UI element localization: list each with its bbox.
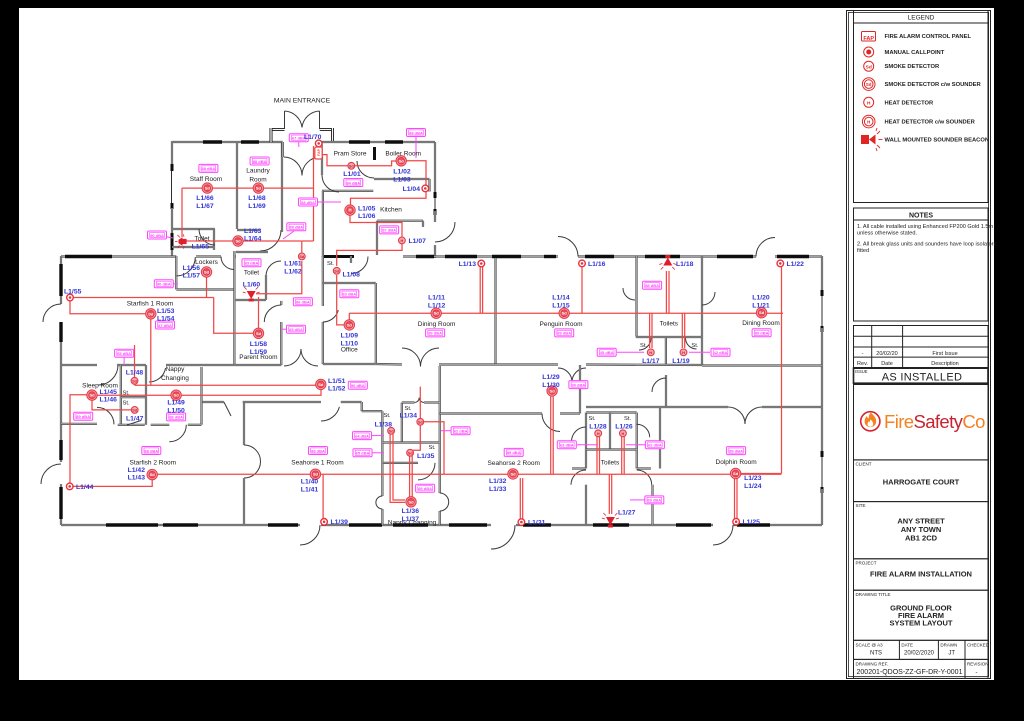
wall office west 2 (322, 322, 324, 364)
wall main west 2 (60, 322, 62, 462)
svg-text:MANUAL CALLPOINT: MANUAL CALLPOINT (885, 50, 945, 56)
wire L1/31 drop b (522, 478, 524, 519)
beacon L1/18 (659, 255, 676, 270)
dBA entrance (289, 134, 308, 142)
svg-text:65 dBA: 65 dBA (356, 451, 370, 456)
dBA toilets mid (643, 281, 662, 289)
wall st block divider v (401, 403, 403, 442)
svg-text:Sd: Sd (510, 471, 516, 476)
wall st block low h (382, 462, 418, 464)
svg-text:L1/15: L1/15 (552, 303, 570, 310)
wall seahorse2 top a (440, 412, 542, 414)
wall starfish2 divider top (243, 402, 245, 445)
svg-text:20/02/20: 20/02/20 (876, 351, 897, 357)
wall nappy2 west b (381, 509, 383, 525)
door parent (264, 305, 281, 322)
svg-text:Sd: Sd (150, 472, 156, 477)
svg-text:NOTES: NOTES (909, 213, 933, 220)
svg-text:42 dBA: 42 dBA (714, 350, 728, 355)
svg-text:L1/49: L1/49 (167, 400, 185, 407)
double doors penguin s (558, 368, 572, 382)
wall kitchen store west (376, 221, 378, 255)
detector L1/07 (399, 237, 406, 244)
svg-text:St.: St. (327, 261, 334, 267)
svg-text:L1/65: L1/65 (192, 244, 210, 251)
svg-text:L1/52: L1/52 (328, 386, 346, 393)
svg-text:Staff Room: Staff Room (190, 176, 222, 183)
wall corridor sw 1 (202, 401, 224, 403)
wire L1/26 drop a (621, 437, 623, 475)
svg-text:63 dBA: 63 dBA (560, 443, 574, 448)
wall top-left wing west 3 (171, 250, 173, 258)
wall dolphin top a (660, 406, 728, 408)
svg-text:H: H (682, 351, 685, 355)
dBA nappy1 (167, 413, 186, 421)
svg-text:Penguin Room: Penguin Room (540, 321, 583, 328)
svg-text:H: H (401, 239, 404, 243)
wall parent east 1 (280, 301, 282, 305)
door corridor mid (321, 407, 339, 421)
svg-text:Date: Date (881, 361, 893, 367)
dBA nappy2 (416, 484, 435, 492)
svg-text:L1/11: L1/11 (428, 295, 445, 302)
svg-text:L1/25: L1/25 (743, 519, 761, 526)
detector L1/05 L1/06 (345, 205, 355, 215)
svg-text:L1/02: L1/02 (393, 169, 411, 176)
svg-text:L1/50: L1/50 (167, 408, 185, 415)
svg-text:L1/27: L1/27 (618, 510, 636, 517)
wire L1/28 drop a (596, 437, 598, 475)
wire L1/55 east (70, 297, 214, 299)
svg-text:H: H (597, 432, 600, 436)
svg-text:Toilet: Toilet (244, 270, 259, 277)
svg-text:86 dBA: 86 dBA (296, 300, 310, 305)
legend symbol: smoke detector c/w sounder (862, 78, 875, 91)
door sleep (98, 365, 118, 385)
wall dining-penguin south (439, 363, 558, 365)
dBA st block b (353, 449, 372, 457)
wall kitchen store stub (422, 221, 424, 227)
svg-text:St.: St. (383, 413, 390, 419)
svg-text:L1/07: L1/07 (409, 238, 427, 245)
svg-text:L1/03: L1/03 (393, 177, 411, 184)
wall sleep/st divider (120, 365, 122, 424)
svg-text:88 dBA: 88 dBA (645, 283, 659, 288)
wall corridor stub e (665, 375, 667, 407)
legend box (854, 11, 989, 203)
door nappy1 n (149, 368, 166, 382)
wire dolphin drop b (736, 478, 738, 522)
beacon L1/27 (602, 513, 619, 528)
detector L1/45 L1/46 (87, 390, 97, 400)
client box (854, 460, 989, 502)
svg-text:Sd: Sd (866, 64, 872, 70)
wall main south 1 (61, 524, 300, 526)
wall toilets2 roof (586, 406, 660, 408)
door pram corridor (322, 175, 339, 192)
door toilet60 east (266, 261, 281, 276)
dBA starfish1 (156, 321, 175, 329)
door corridor dbl w (284, 349, 301, 366)
detector L1/26 (620, 430, 627, 437)
wall seahorse divider a (439, 366, 441, 493)
wall main top w2 (196, 255, 221, 257)
wall toilet65 east (213, 229, 215, 250)
svg-text:H: H (867, 100, 871, 106)
svg-text:L1/29: L1/29 (542, 374, 560, 381)
double doors seahorse divider (440, 493, 449, 502)
dBA pram (344, 179, 363, 187)
callpoint L1/70 (315, 140, 322, 147)
wall seahorse divider b (439, 511, 441, 525)
svg-text:200201-QDOS-ZZ-GF-DR-Y-0001: 200201-QDOS-ZZ-GF-DR-Y-0001 (857, 669, 963, 676)
wall main top e2 (578, 255, 756, 257)
wall kitchen ne stub (428, 179, 430, 192)
svg-text:90 dBA: 90 dBA (351, 383, 365, 388)
svg-text:fitted: fitted (857, 248, 869, 254)
svg-text:L1/55: L1/55 (64, 289, 82, 296)
entrance outer doors (284, 111, 286, 129)
svg-text:Sd: Sd (408, 451, 414, 455)
dBA toilets2 c (645, 496, 664, 504)
wire lockers drop (206, 272, 208, 298)
entrance inner doors (284, 157, 302, 176)
beacon L1/65 (175, 234, 187, 248)
wall top-left wing west 1 (171, 141, 173, 166)
svg-text:L1/53: L1/53 (157, 308, 175, 315)
dBA toilets2 b (645, 441, 664, 449)
svg-text:St.: St. (640, 343, 647, 349)
wire L1/31 drop a (519, 478, 521, 519)
svg-text:DATE: DATE (901, 642, 913, 647)
wire L1/35 drop b (411, 456, 413, 497)
wall nappy2 west a (381, 411, 383, 496)
wall st block top a (402, 401, 415, 403)
svg-text:Sd: Sd (256, 331, 262, 336)
detector L1/53 L1/54 (146, 309, 156, 319)
svg-text:Dining Room: Dining Room (418, 321, 456, 328)
svg-text:83 dBA: 83 dBA (342, 292, 356, 297)
callpoint L1/13 (478, 260, 485, 267)
svg-text:L1/40: L1/40 (301, 479, 319, 486)
wire Wd bottom corridor (152, 473, 781, 475)
svg-text:L1/39: L1/39 (331, 519, 349, 526)
svg-text:St.: St. (428, 445, 435, 451)
wire to beacon L1/60 (256, 261, 302, 294)
door sleep s (97, 407, 114, 424)
svg-text:FAP: FAP (317, 148, 321, 156)
detector L1/34 (417, 418, 424, 425)
svg-text:Kitchen: Kitchen (380, 207, 402, 214)
dBA toilet60 (242, 259, 261, 267)
svg-text:L1/26: L1/26 (615, 424, 633, 431)
svg-text:St.: St. (588, 416, 595, 422)
wire L1/17 drop b (651, 313, 653, 348)
beacon L1/60 (243, 287, 260, 302)
detector L1/47 (131, 407, 138, 414)
wire L1/16 drop (581, 267, 583, 313)
wire L1/08 to office (337, 275, 344, 325)
svg-text:L1/09: L1/09 (341, 333, 359, 340)
wall main east 3 (821, 489, 823, 525)
dBA corr mid (293, 298, 312, 306)
wire L1/48 riser (134, 345, 136, 385)
wall dining2 south (702, 364, 822, 366)
wire starfish1 riser (150, 314, 152, 385)
wire staff/laundry (182, 187, 314, 189)
wall dolphin west upper (659, 407, 661, 469)
svg-text:Changing: Changing (161, 375, 189, 382)
callpoint L1/22 (777, 260, 784, 267)
svg-text:Sd: Sd (550, 388, 556, 393)
wire Wb east (176, 390, 321, 395)
door toilets2 sw (571, 470, 586, 485)
wall main west 3 (60, 484, 62, 525)
svg-text:L1/46: L1/46 (100, 397, 118, 404)
wall boiler south (374, 178, 430, 180)
wire kitchen to L1/08 (337, 244, 402, 266)
wall dolphin top b (762, 406, 822, 408)
svg-text:L1/59: L1/59 (250, 349, 268, 356)
svg-text:L1/17: L1/17 (642, 358, 660, 365)
wall pram west upper (321, 157, 323, 175)
svg-text:First Issue: First Issue (932, 351, 957, 357)
svg-text:88 dBA: 88 dBA (202, 166, 216, 171)
wall main top w1 (61, 255, 176, 257)
project box (854, 559, 989, 590)
wire L1/34 to Wd (423, 422, 444, 474)
wall main west 1 (60, 256, 62, 304)
wall toilet60 east (265, 275, 267, 300)
svg-text:L1/31: L1/31 (528, 520, 546, 527)
wall st2 south (586, 448, 637, 450)
wall starfish2 divider bottom (243, 478, 245, 525)
dBA starfish2 (142, 447, 161, 455)
wall toilets mid east (701, 256, 703, 366)
title block outer border (847, 11, 991, 679)
svg-text:L1/33: L1/33 (489, 486, 507, 493)
svg-text:88 dBA: 88 dBA (311, 448, 325, 453)
svg-text:Sd: Sd (174, 393, 180, 398)
wall st closets mid divider (665, 337, 667, 365)
svg-text:88 dBA: 88 dBA (253, 159, 267, 164)
svg-text:Toilet: Toilet (194, 236, 209, 243)
dBA dolphin (727, 447, 746, 455)
svg-text:89 dBA: 89 dBA (557, 331, 571, 336)
drawing title box (854, 590, 989, 640)
company logo (861, 411, 985, 432)
scale row (854, 640, 989, 659)
svg-text:L1/01: L1/01 (343, 171, 361, 178)
wall lockers west (175, 256, 177, 290)
detector L1/49 L1/50 (171, 390, 181, 400)
detector L1/28 (595, 430, 602, 437)
wall top-left wing top (172, 141, 283, 143)
svg-text:L1/67: L1/67 (196, 203, 214, 210)
wire L1/18 drop a (665, 271, 667, 313)
door penguin top (558, 237, 578, 257)
svg-text:Rev.: Rev. (857, 361, 868, 367)
svg-text:CHECKED: CHECKED (967, 642, 990, 647)
svg-text:Sd: Sd (132, 379, 138, 383)
svg-text:L1/41: L1/41 (301, 487, 319, 494)
svg-text:89 dBA: 89 dBA (76, 414, 90, 419)
wire L1/61 drop (301, 241, 303, 256)
wall kitchen south east (403, 255, 435, 257)
door nappy2 inner (418, 463, 435, 480)
issue box (854, 368, 989, 383)
svg-text:St.: St. (624, 416, 631, 422)
wall corridor sw 3 (341, 401, 362, 403)
svg-text:Starfish 2 Room: Starfish 2 Room (129, 460, 176, 467)
wall top-right wing east 2 (434, 211, 436, 222)
svg-text:L1/48: L1/48 (126, 370, 144, 377)
svg-text:87 dBA: 87 dBA (158, 323, 172, 328)
dBA parent (287, 325, 306, 333)
detector L1/48 (131, 377, 138, 384)
dBA lobby (287, 223, 306, 231)
svg-text:HARROGATE COURT: HARROGATE COURT (883, 478, 960, 487)
detector L1/32 L1/33 (508, 469, 518, 479)
detector L1/01 (348, 162, 355, 169)
wire parent to lockers (214, 298, 259, 334)
svg-text:Office: Office (341, 347, 358, 354)
callpoint L1/55 (67, 294, 74, 301)
wire L1/19 drop b (684, 313, 686, 348)
svg-text:Sd: Sd (408, 499, 414, 504)
svg-text:89 dBA: 89 dBA (755, 331, 769, 336)
svg-text:Sd: Sd (434, 311, 440, 316)
door corridor dbl e (301, 349, 318, 366)
svg-text:L1/22: L1/22 (787, 261, 805, 268)
svg-text:Sd: Sd (418, 420, 424, 424)
dBA dining2 (752, 329, 771, 337)
dBA seahorse1 (309, 447, 328, 455)
svg-text:H: H (622, 432, 625, 436)
wire L1/35 drop a (409, 456, 411, 497)
dBA dining (426, 329, 445, 337)
svg-text:DRAWING REF.: DRAWING REF. (856, 661, 889, 666)
svg-text:L1/19: L1/19 (672, 358, 690, 365)
svg-text:89 dBA: 89 dBA (507, 450, 521, 455)
wire L1/13 drop a (479, 267, 481, 313)
dBA kitchen store (380, 226, 399, 234)
svg-text:AB1 2CD: AB1 2CD (905, 534, 938, 543)
wall toilets2 west b (585, 485, 587, 525)
svg-text:L1/44: L1/44 (76, 484, 94, 491)
callpoint L1/25 (733, 518, 740, 525)
svg-text:1. All cable installed using: 1. All cable installed using Enhanced FP… (857, 224, 994, 230)
svg-text:Sd: Sd (733, 471, 739, 476)
door dining2 top (756, 238, 775, 257)
svg-text:Seahorse 1 Room: Seahorse 1 Room (291, 460, 343, 467)
svg-text:Pram Store: Pram Store (334, 151, 367, 158)
svg-text:PROJECT: PROJECT (856, 561, 877, 566)
wire Wb west (96, 394, 176, 396)
wall top-left wing west 2 (171, 208, 173, 233)
svg-text:AS INSTALLED: AS INSTALLED (882, 372, 962, 384)
wall vestibule inner east (321, 142, 323, 157)
detector L1/23 L1/24 (730, 468, 740, 478)
wall office east (375, 283, 377, 364)
wall office west 1 (322, 256, 324, 306)
svg-text:SMOKE DETECTOR c/w SOUNDER: SMOKE DETECTOR c/w SOUNDER (885, 82, 982, 88)
wall main top w3 (234, 255, 237, 257)
svg-text:L1/51: L1/51 (328, 378, 346, 385)
wall dolphin west lower (651, 485, 653, 525)
svg-text:Sd: Sd (256, 186, 262, 191)
svg-text:64 dBA: 64 dBA (355, 433, 369, 438)
wire L1/27 drop a (608, 474, 610, 514)
svg-text:90 dBA: 90 dBA (150, 233, 164, 238)
dBA toilets2 a (557, 441, 576, 449)
svg-text:Dining Room: Dining Room (742, 320, 780, 327)
callpoint L1/16 (579, 260, 586, 267)
svg-text:L1/24: L1/24 (744, 483, 762, 490)
svg-text:89 dBA: 89 dBA (428, 331, 442, 336)
svg-text:L1/04: L1/04 (403, 186, 421, 193)
wire L1/19 drop a (681, 313, 683, 348)
legend symbol: heat detector c/w sounder (862, 115, 875, 128)
svg-text:88 dBA: 88 dBA (169, 415, 183, 420)
legend symbol: fire alarm control panel (862, 32, 876, 42)
notes box (854, 208, 989, 321)
wall top-right wing top (322, 141, 435, 143)
wall seahorse2 top b (560, 412, 580, 414)
svg-text:L1/32: L1/32 (489, 478, 507, 485)
wall toilets2 west a (585, 413, 587, 469)
svg-text:L1/05: L1/05 (358, 206, 376, 213)
svg-text:ISSUE: ISSUE (855, 369, 868, 374)
svg-text:Nappy: Nappy (166, 366, 186, 373)
wire L1/34 to L1/35 (411, 425, 420, 450)
wall lockers south (176, 288, 234, 290)
svg-text:L1/62: L1/62 (284, 269, 302, 276)
svg-text:L1/56: L1/56 (183, 265, 201, 272)
door south e (713, 525, 733, 545)
svg-text:Sd: Sd (562, 311, 568, 316)
svg-text:-: - (862, 351, 864, 357)
svg-text:Sd: Sd (205, 186, 211, 191)
svg-text:St.: St. (691, 343, 698, 349)
dBA corridor e (569, 381, 588, 389)
wall sleep south (61, 423, 97, 425)
svg-text:Sd: Sd (347, 322, 353, 327)
detector L1/14 L1/15 (559, 308, 569, 318)
door st2 a (572, 427, 587, 442)
double doors dolphin (728, 407, 745, 424)
svg-text:L1/45: L1/45 (100, 389, 118, 396)
wall nappy1 south b (188, 424, 202, 426)
svg-text:Starfish 1 Room: Starfish 1 Room (127, 301, 174, 308)
svg-text:89 dBA: 89 dBA (729, 448, 743, 453)
drawing ref row (854, 659, 989, 678)
svg-text:L1/28: L1/28 (589, 424, 607, 431)
wire Wa (135, 384, 316, 386)
svg-text:L1/12: L1/12 (428, 303, 446, 310)
svg-text:Sd: Sd (89, 393, 95, 398)
wall toilets2 w stub (572, 467, 586, 469)
door main west lower (41, 464, 61, 484)
svg-text:SITE: SITE (856, 503, 866, 508)
svg-text:Sd: Sd (399, 158, 405, 163)
wall toilets2 east (636, 413, 638, 469)
legend symbol: heat detector (864, 97, 874, 107)
detector L1/19 (680, 349, 687, 356)
svg-text:L1/63: L1/63 (244, 228, 262, 235)
svg-text:Sd: Sd (132, 408, 138, 412)
door corridor e (652, 378, 666, 392)
